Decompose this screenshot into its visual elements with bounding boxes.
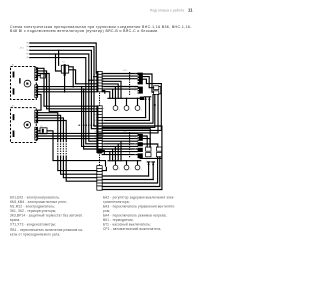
- connector block XP6 (filled): [138, 153, 143, 158]
- lamp HL6: [135, 165, 140, 170]
- wire block out 1: [143, 74, 154, 92]
- fan wire A2 pin3 (dashed mid): [38, 118, 64, 141]
- wire A1 pin2 to strip X2: [38, 71, 97, 109]
- wire K2 to strip X3: [47, 131, 106, 166]
- svg-text:ЗК3,ВР14 - защитный термостат: ЗК3,ВР14 - защитный термостат без автома…: [10, 214, 83, 218]
- svg-text:Подготовка к работе: Подготовка к работе: [150, 8, 184, 12]
- relay K2: [40, 128, 47, 134]
- return wire r2: [102, 179, 153, 181]
- junction dot: [154, 104, 156, 106]
- wire K1 output right upper: [69, 67, 74, 87]
- return wire b2: [102, 119, 149, 121]
- fan wire A2 pin2 (dashed mid): [38, 115, 61, 141]
- circuit breaker SF4: [156, 147, 161, 151]
- wire X1.5 corner down: [102, 84, 118, 98]
- dashed link wire: [79, 124, 95, 126]
- wire breaker right down b5: [102, 84, 161, 131]
- wire A1 lower pin3 to strip X1: [38, 91, 97, 93]
- connector comb A2 lower: [35, 127, 38, 140]
- svg-text:тровентилятора;: тровентилятора;: [103, 200, 130, 204]
- svg-text:В48 Вi с подключением вентилят: В48 Вi с подключением вентиляторов (пунк…: [10, 29, 159, 33]
- capacitor bar C1: [19, 78, 20, 83]
- junction dot K1 bottom net: [64, 91, 66, 93]
- connector X8.1 pin ticks: [29, 42, 31, 58]
- wire block out 3: [143, 79, 162, 83]
- wire X2.h to block: [102, 154, 137, 156]
- fan wire A2 pin1 (dashed mid): [38, 113, 58, 141]
- circuit breaker SF1: [154, 86, 159, 90]
- svg-text:БА2 - регулятор задержки выклю: БА2 - регулятор задержки выключения элек…: [103, 196, 175, 200]
- heater bar EK1: [13, 72, 15, 78]
- connector X8.1 pin numbers: [27, 42, 28, 58]
- wire breaker down left b4: [102, 95, 155, 128]
- breaker bracket: [159, 87, 161, 94]
- wire A2 lower pin4 to module: [38, 138, 138, 140]
- svg-text:ВК1 - термодатчик;: ВК1 - термодатчик;: [103, 218, 134, 222]
- return wire r5: [102, 189, 162, 191]
- wire X1.8 corner down: [102, 92, 110, 99]
- wire X1.6 to block2 and corner: [102, 87, 137, 99]
- svg-text:СР1 - автоматический выключате: СР1 - автоматический выключатель.: [103, 227, 162, 231]
- bus wire 3: [31, 50, 151, 147]
- dashed wire X1 to X2: [99, 93, 101, 106]
- svg-text:ХТ1,ХТ3 - конденсатометры;: ХТ1,ХТ3 - конденсатометры;: [10, 223, 56, 227]
- lamp stub 6: [137, 161, 139, 165]
- wire X2.c corner down: [102, 141, 137, 161]
- wire X1.7 to block2 and corner: [102, 89, 137, 98]
- svg-text:ЗК1, ЗК2 - терморегуляторы;: ЗК1, ЗК2 - терморегуляторы;: [10, 209, 56, 213]
- lamp HL4: [113, 165, 118, 170]
- bus wire 5: [31, 58, 97, 144]
- lamp HL2: [124, 106, 129, 111]
- wire X2.f corner down: [102, 149, 137, 161]
- junction blob row1 right: [140, 97, 144, 100]
- heater bar EK2: [13, 88, 15, 94]
- svg-text:врана.: врана.: [10, 218, 20, 222]
- wire X1.4 corner down: [102, 81, 121, 98]
- connector block XP2 (filled): [138, 87, 143, 94]
- wire branch to relay K1 top: [58, 50, 60, 65]
- connector block XP3 (filled): [138, 134, 143, 141]
- cluster 2 cable boundary (dashed): [129, 132, 131, 158]
- wire block3 out 2: [143, 139, 150, 147]
- terminal strip X1 (upper): [97, 71, 102, 91]
- wire A1 pin1 to strip X2: [38, 68, 97, 106]
- bus wire 1: [31, 43, 98, 73]
- wire block bottom line: [140, 157, 162, 159]
- svg-text:БТ1 - насосный выключатель;: БТ1 - насосный выключатель;: [103, 223, 151, 227]
- wire breaker down left b3: [102, 95, 153, 124]
- wire A1 lower pin4 down to A2: [38, 94, 41, 110]
- dashed wire X2 to X3: [99, 155, 101, 166]
- thermo terminal T1: [147, 162, 150, 176]
- bus wire 4: [31, 54, 97, 141]
- strip X1 pin numbers (gray): [95, 74, 105, 89]
- svg-text:ЕК1,ЕК2 - электронагреватель;: ЕК1,ЕК2 - электронагреватель;: [10, 196, 60, 200]
- wire branch to relay K1 coil left: [56, 54, 62, 71]
- thermo terminal T2: [152, 162, 155, 180]
- return wire r1: [102, 175, 148, 177]
- terminator plug X9: [38, 75, 40, 77]
- connector comb A1 upper: [35, 68, 38, 81]
- wire K1 output bottom: [64, 76, 66, 92]
- circuit breaker SF2: [154, 91, 159, 95]
- hook wire below X1: [102, 91, 105, 94]
- lamp HL1: [113, 106, 118, 111]
- terminal strip X3 (lower): [97, 166, 102, 191]
- motor M2: [24, 122, 31, 129]
- wire A1 pin3 to strip X2: [38, 74, 97, 112]
- relay K1: [61, 65, 68, 73]
- wire X1.2 to block: [102, 75, 137, 77]
- module XP1 pin numbers (gray): [135, 74, 136, 155]
- lamp stub 1: [115, 98, 117, 105]
- wire A2 lower pin3 to module: [38, 135, 138, 137]
- wire X2.g corner down: [102, 152, 137, 161]
- thermo terminal T3: [144, 97, 147, 118]
- connector comb A2 upper: [35, 110, 38, 123]
- wire block3 out 1: [143, 136, 147, 147]
- connector block XP4 (filled): [138, 142, 143, 146]
- motor M1: [24, 80, 31, 87]
- wire A1 lower pin1 to strip X1: [38, 86, 97, 88]
- branch L2 to strip X1: [94, 76, 97, 78]
- wire block4 out to breaker2: [143, 144, 158, 147]
- connector block XP1 (filled): [138, 73, 143, 85]
- svg-text:БА3 - переключатель управления: БА3 - переключатель управления вентилято…: [103, 205, 175, 209]
- wire A2 lower pin2 to module: [38, 132, 138, 134]
- return wire b6: [102, 95, 158, 133]
- device box A2 (dashed enclosure): [11, 108, 37, 143]
- feed line circles row 1: [108, 97, 141, 99]
- svg-text:ПВ1 - переключатель включения: ПВ1 - переключатель включения режимов ка…: [10, 228, 83, 232]
- fan wire A2 pin4 (dashed mid): [38, 121, 66, 142]
- lamp HL5: [124, 165, 129, 170]
- heater bar EK4: [13, 131, 15, 138]
- svg-text:БА4 - переключатель режимов на: БА4 - переключатель режимов нагрева;: [103, 214, 167, 218]
- wire K1 output right lower: [69, 70, 97, 84]
- wire X1.3 to block: [102, 78, 137, 80]
- lamp stub 5: [126, 161, 128, 165]
- wire A2 to relay K2: [38, 130, 40, 132]
- lamp stub 2: [126, 98, 128, 105]
- hook wire right of SQ1: [102, 151, 105, 154]
- device box A1 (dashed enclosure): [11, 67, 37, 100]
- svg-text:каты от присоединяемого узла;: каты от присоединяемого узла;: [10, 233, 60, 237]
- strip X2 pin numbers (gray): [95, 108, 105, 144]
- wire vertical x83.6: [84, 89, 97, 149]
- wire vertical x81.6: [82, 87, 97, 147]
- svg-text:11: 11: [188, 8, 193, 13]
- wire X2.d corner down: [102, 144, 137, 161]
- branch L4 to strip X1: [89, 79, 97, 81]
- circuit breaker SF3: [146, 147, 151, 151]
- feed line circles row 2: [108, 160, 141, 162]
- hook wire strip X3 top: [102, 167, 106, 170]
- svg-text:КМ1,КМ4 - электромагнитные рел: КМ1,КМ4 - электромагнитные реле;: [10, 200, 67, 204]
- lamp stub 3: [137, 98, 139, 105]
- cluster 1 cable boundary (dashed): [129, 72, 131, 95]
- connector block XP5 (filled): [138, 148, 143, 152]
- wire X2.e corner down: [102, 146, 137, 160]
- heater bar EK3: [13, 114, 15, 120]
- svg-text:-Х8.1: -Х8.1: [19, 48, 25, 50]
- bus wire 2: [31, 47, 162, 190]
- terminal strip X2 (middle): [97, 106, 102, 153]
- switch SQ1: [97, 148, 101, 153]
- thermo terminal T4: [148, 97, 151, 121]
- circuit breaker SF5: [146, 153, 151, 157]
- wire X1.1 to block: [102, 73, 137, 75]
- return wire r4: [102, 157, 160, 187]
- lamp HL3: [135, 106, 140, 111]
- return wire b1: [102, 117, 145, 119]
- wire A1 lower pin2 to strip X1: [38, 88, 97, 90]
- circuit breaker SF6: [156, 153, 161, 157]
- connector comb A1 lower: [35, 85, 38, 98]
- return wire r3: [102, 157, 157, 183]
- lamp stub 4: [115, 161, 117, 165]
- wire block out 2: [143, 77, 154, 88]
- svg-text:М1,М12 - электродвигатель;: М1,М12 - электродвигатель;: [10, 205, 55, 209]
- svg-text:ром;: ром;: [103, 209, 110, 213]
